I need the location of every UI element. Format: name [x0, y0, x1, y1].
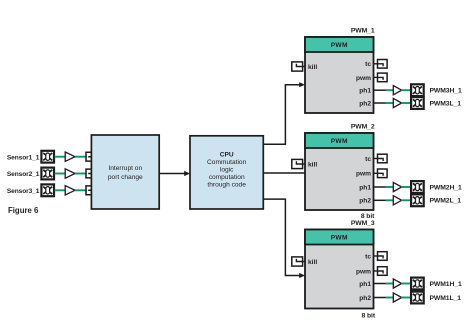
buffer S1 [65, 152, 75, 161]
wire buffer to pin PWM1L_1 [401, 297, 411, 299]
wire buffer S3 to port [75, 189, 87, 191]
pin PWM1L_1 [411, 292, 424, 304]
arrowhead into CPU [184, 171, 190, 176]
buffer PWM3L_1 [393, 98, 401, 107]
block Interrupt on port change [91, 135, 159, 209]
svg-text:tc: tc [365, 61, 371, 68]
svg-text:logic: logic [220, 166, 234, 173]
block PWM_3 [305, 230, 374, 309]
block PWM_2 [305, 133, 374, 210]
pin PWM2L_1 [411, 194, 424, 206]
terminal kill of PWM_2 [292, 159, 305, 168]
terminal tc of PWM_2 [374, 154, 388, 163]
block CPU [190, 136, 263, 209]
svg-text:ph1: ph1 [359, 88, 371, 95]
svg-text:PWM_2: PWM_2 [351, 124, 375, 131]
port in1 on Interrupt block [86, 152, 91, 161]
svg-text:8 bit: 8 bit [362, 313, 376, 320]
wire PWM_2 ph2 output [374, 199, 386, 201]
pin Sensor3_1 [41, 184, 54, 196]
svg-text:PWM: PWM [331, 42, 348, 49]
svg-text:port change: port change [108, 174, 143, 181]
svg-text:pwm: pwm [356, 75, 371, 82]
svg-text:ph2: ph2 [359, 295, 371, 302]
wire CPU to PWM_2 [263, 172, 305, 174]
buffer PWM1L_1 [393, 293, 401, 302]
svg-text:ph2: ph2 [359, 100, 371, 107]
terminal pwm of PWM_3 [374, 267, 388, 276]
svg-text:pwm: pwm [356, 268, 371, 275]
terminal pwm of PWM_2 [374, 169, 388, 178]
wire PWM_1 ph1 output [374, 89, 386, 91]
svg-text:PWM1H_1: PWM1H_1 [430, 281, 462, 288]
buffer PWM2H_1 [393, 182, 401, 191]
svg-text:Commutation: Commutation [207, 159, 247, 166]
wire buffer to pin PWM2L_1 [401, 199, 411, 201]
wire buffer to pin PWM3L_1 [401, 102, 411, 104]
buffer S3 [65, 186, 75, 195]
pin PWM3H_1 [411, 84, 424, 96]
svg-text:PWM_1: PWM_1 [351, 28, 375, 35]
wire buffer to pin PWM3H_1 [401, 89, 411, 91]
buffer PWM1H_1 [393, 279, 401, 288]
wire CPU to PWM_3 [263, 199, 300, 275]
svg-text:PWM: PWM [331, 235, 348, 242]
svg-text:computation: computation [209, 174, 245, 181]
svg-text:kill: kill [308, 161, 317, 168]
wire Sensor1_1 to buffer [55, 156, 66, 158]
svg-text:Figure 6: Figure 6 [8, 206, 39, 215]
svg-text:tc: tc [365, 156, 371, 163]
svg-text:kill: kill [308, 259, 317, 266]
svg-text:CPU: CPU [220, 151, 234, 158]
svg-text:PWM3L_1: PWM3L_1 [430, 100, 462, 107]
wire buffer to pin PWM2H_1 [401, 186, 411, 188]
svg-text:tc: tc [365, 253, 371, 260]
svg-text:Sensor1_1: Sensor1_1 [7, 154, 40, 161]
arrowhead into PWM_1 [299, 82, 305, 87]
terminal kill of PWM_3 [292, 257, 305, 266]
terminal pwm of PWM_1 [374, 73, 388, 82]
svg-text:8 bit: 8 bit [361, 213, 375, 220]
pin Sensor1_1 [41, 151, 54, 163]
wire PWM_2 ph1 output [374, 186, 386, 188]
terminal tc of PWM_3 [374, 252, 388, 261]
svg-text:PWM1L_1: PWM1L_1 [430, 295, 462, 302]
wire CPU to PWM_1 [263, 85, 300, 145]
wire buffer S1 to port [75, 156, 87, 158]
svg-text:pwm: pwm [356, 171, 371, 178]
wire Sensor2_1 to buffer [55, 173, 66, 175]
buffer PWM3H_1 [393, 86, 401, 95]
svg-text:PWM: PWM [331, 138, 348, 145]
arrowhead into PWM_3 [299, 273, 305, 278]
svg-text:Sensor2_1: Sensor2_1 [7, 171, 40, 178]
port in3 on Interrupt block [86, 186, 91, 195]
svg-text:PWM2L_1: PWM2L_1 [430, 198, 462, 205]
svg-text:PWM3H_1: PWM3H_1 [430, 88, 462, 95]
wire Interrupt to CPU [159, 173, 185, 175]
buffer PWM2L_1 [393, 196, 401, 205]
terminal tc of PWM_1 [374, 60, 388, 69]
pin PWM2H_1 [411, 181, 424, 193]
wire buffer to pin PWM1H_1 [401, 283, 411, 285]
buffer S2 [65, 169, 75, 178]
pin Sensor2_1 [41, 168, 54, 180]
pin PWM1H_1 [411, 278, 424, 290]
wire PWM_1 ph2 output [374, 102, 386, 104]
svg-text:ph2: ph2 [359, 198, 371, 205]
wire Sensor3_1 to buffer [55, 189, 66, 191]
port in2 on Interrupt block [86, 169, 91, 178]
terminal kill of PWM_1 [292, 62, 305, 71]
svg-text:ph1: ph1 [359, 281, 371, 288]
block PWM_1 [305, 37, 374, 113]
svg-text:through code: through code [207, 181, 246, 188]
wire PWM_3 ph2 output [374, 297, 386, 299]
svg-text:Sensor3_1: Sensor3_1 [7, 188, 40, 195]
wire PWM_3 ph1 output [374, 283, 386, 285]
svg-text:PWM2H_1: PWM2H_1 [430, 184, 462, 191]
svg-text:Interrupt on: Interrupt on [108, 165, 142, 172]
wire buffer S2 to port [75, 173, 87, 175]
pin PWM3L_1 [411, 97, 424, 109]
svg-text:kill: kill [308, 64, 317, 71]
svg-text:ph1: ph1 [359, 184, 371, 191]
svg-text:PWM_3: PWM_3 [351, 220, 375, 227]
